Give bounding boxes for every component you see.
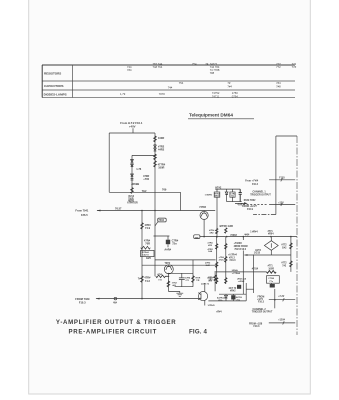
- svg-text:#R#2: #R#2: [230, 291, 236, 293]
- svg-text:FIG. 4: FIG. 4: [189, 329, 208, 336]
- svg-text:100R: 100R: [158, 166, 164, 170]
- svg-text:+70#R3: +70#R3: [234, 243, 243, 245]
- svg-text:7#: 7#: [227, 81, 230, 85]
- svg-text:77n: 77n: [269, 281, 273, 283]
- svg-text:CHANNEL 1: CHANNEL 1: [253, 190, 267, 193]
- svg-text:G#2: G#2: [282, 247, 287, 249]
- svg-text:+R09B: +R09B: [131, 182, 139, 186]
- svg-text:70R: 70R: [145, 241, 150, 245]
- svg-text:#772: #772: [281, 262, 287, 264]
- svg-text:#70 2: #70 2: [229, 257, 235, 259]
- svg-text:74TR#: 74TR#: [199, 206, 207, 209]
- svg-text:769: 769: [162, 188, 167, 192]
- svg-text:7#7#: 7#7#: [159, 92, 165, 96]
- svg-text:7#4: 7#4: [127, 68, 132, 72]
- svg-text:##72 7#: ##72 7#: [201, 284, 210, 286]
- svg-text:7#R##: 7#R##: [230, 235, 237, 237]
- svg-text:4/R0N FROM: 4/R0N FROM: [234, 245, 248, 248]
- svg-text:72n: 72n: [172, 242, 177, 246]
- svg-text:+R#4: +R#4: [216, 311, 222, 314]
- svg-text:F#6.5: F#6.5: [81, 213, 88, 217]
- svg-text:76.57: 76.57: [115, 206, 122, 210]
- svg-text:F103: F103: [279, 178, 285, 180]
- svg-text:74711: 74711: [212, 94, 220, 98]
- svg-text:7404: 7404: [158, 219, 164, 222]
- svg-text:RESISTORS: RESISTORS: [44, 72, 61, 76]
- svg-text:HT#2: HT#2: [215, 186, 222, 189]
- svg-text:F10.3: F10.3: [258, 301, 265, 303]
- svg-text:7#4: 7#4: [276, 81, 281, 85]
- svg-text:Telequipment DM64: Telequipment DM64: [189, 113, 233, 118]
- svg-text:77#: 77#: [292, 65, 297, 69]
- svg-text:F10.0: F10.0: [230, 260, 237, 262]
- svg-text:7#8: 7#8: [210, 71, 215, 75]
- svg-text:74#: 74#: [168, 86, 173, 90]
- svg-text:TR7#: TR7#: [165, 263, 171, 265]
- svg-text:70#4 F10.0: 70#4 F10.0: [234, 248, 246, 251]
- svg-text:F10.3: F10.3: [252, 184, 259, 186]
- svg-text:+40V: +40V: [129, 124, 136, 128]
- svg-text:1 #R#4: 1 #R#4: [250, 231, 258, 234]
- svg-text:CAPACITORS: CAPACITORS: [44, 84, 64, 88]
- svg-text:7/R: 7/R: [196, 280, 200, 282]
- svg-text:ATR4TOR: ATR4TOR: [127, 201, 138, 204]
- svg-text:754: 754: [192, 62, 197, 66]
- svg-text:0794: 0794: [232, 94, 238, 98]
- svg-text:+7.2V: +7.2V: [278, 296, 285, 298]
- svg-text:1,79: 1,79: [120, 92, 126, 96]
- svg-text:74.9: 74.9: [145, 226, 151, 230]
- svg-text:74.2: 74.2: [145, 279, 151, 283]
- svg-text:F10.3: F10.3: [254, 326, 261, 328]
- svg-text:1.76: 1.76: [136, 167, 142, 171]
- svg-text:+12V#: +12V#: [278, 320, 285, 322]
- svg-text:#772: #772: [281, 244, 287, 246]
- svg-text:1/G15: 1/G15: [254, 252, 261, 254]
- svg-text:772: 772: [276, 65, 281, 69]
- svg-text:From 7041: From 7041: [75, 209, 89, 213]
- svg-text:100R: 100R: [158, 136, 164, 140]
- svg-text:FROM +12.2T: FROM +12.2T: [242, 206, 257, 208]
- svg-text:R0#9 7R0#: R0#9 7R0#: [244, 200, 256, 202]
- svg-text:G25: G25: [146, 256, 151, 260]
- svg-text:100R: 100R: [268, 268, 274, 270]
- svg-text:+700: +700: [143, 177, 149, 181]
- svg-text:+12V: +12V: [278, 203, 284, 205]
- svg-text:#R04: #R04: [268, 232, 274, 235]
- svg-text:#7N2: #7N2: [157, 274, 163, 276]
- svg-text:From + F#/4: From + F#/4: [245, 180, 259, 183]
- svg-text:1 IN7R#: 1 IN7R#: [205, 195, 213, 197]
- svg-text:4#04: 4#04: [244, 233, 250, 236]
- svg-text:TRIGGER OUTPUT: TRIGGER OUTPUT: [250, 194, 271, 196]
- svg-text:+0 7R#4: +0 7R#4: [228, 253, 237, 256]
- svg-text:7#4: 7#4: [227, 85, 232, 89]
- svg-text:7#8: 7#8: [276, 85, 281, 89]
- svg-text:#7#12: #7#12: [219, 259, 226, 261]
- svg-text:DIODES-LAMPS: DIODES-LAMPS: [44, 92, 67, 96]
- svg-text:#7014: #7014: [252, 268, 259, 271]
- svg-text:F10.9: F10.9: [247, 209, 254, 211]
- svg-text:PRE-AMPLIFIER CIRCUIT: PRE-AMPLIFIER CIRCUIT: [69, 329, 158, 336]
- svg-text:A#R#: A#R#: [164, 248, 171, 252]
- svg-text:G#R: G#R: [206, 265, 211, 267]
- svg-text:#R#+: #R#+: [218, 300, 224, 302]
- svg-text:+#R#2: +#R#2: [238, 281, 245, 283]
- svg-text:7#: 7#: [205, 62, 208, 66]
- svg-text:7G#: 7G#: [142, 189, 147, 193]
- svg-text:44R2: 44R2: [158, 148, 165, 152]
- svg-text:74# 764: 74# 764: [153, 65, 163, 69]
- svg-text:C7R4: C7R4: [268, 277, 274, 280]
- svg-text:CHANNEL 2: CHANNEL 2: [253, 308, 267, 311]
- svg-text:754: 754: [179, 81, 184, 85]
- svg-text:4#TR# G2R: 4#TR# G2R: [219, 224, 233, 228]
- svg-text:TRIGGER OUTPUT: TRIGGER OUTPUT: [252, 312, 273, 314]
- svg-text:1/7R#5: 1/7R#5: [208, 305, 216, 307]
- svg-text:6R02: 6R02: [215, 196, 221, 198]
- svg-text:+C7R#4: +C7R#4: [232, 272, 241, 275]
- svg-text:Y-AMPLIFIER OUTPUT & TRIGGER: Y-AMPLIFIER OUTPUT & TRIGGER: [56, 319, 176, 326]
- svg-text:F10.3: F10.3: [79, 300, 86, 304]
- svg-text:#771: #771: [268, 265, 274, 267]
- svg-text:HR#A: HR#A: [232, 269, 238, 272]
